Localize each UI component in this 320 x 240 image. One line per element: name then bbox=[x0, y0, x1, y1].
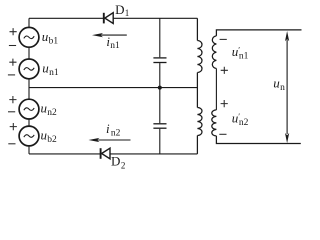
reference label D2 bbox=[111, 154, 125, 171]
value label u_n1 bbox=[42, 60, 59, 78]
value label u_b1 bbox=[42, 29, 59, 47]
polarity - of u_b1 bbox=[9, 45, 16, 47]
polarity + of u'_n2 bbox=[221, 100, 228, 107]
wire between secondary windings bbox=[215, 69, 217, 110]
wire between sources u_n2 and u_b2 bbox=[28, 119, 30, 126]
polarity - of u_n1 bbox=[8, 74, 15, 76]
svg-text:b1: b1 bbox=[49, 36, 59, 46]
value label u_n2 bbox=[41, 100, 58, 118]
current label i_n1 bbox=[106, 34, 120, 51]
diode D1 bbox=[104, 13, 113, 24]
polarity - of u_n2 bbox=[8, 111, 15, 113]
diode D2 bbox=[101, 148, 110, 159]
wire middle rail (center tap to transformer) bbox=[29, 87, 197, 89]
current arrow i_n1 bbox=[92, 33, 127, 37]
ac source u_n2 bbox=[19, 99, 39, 119]
svg-text:n1: n1 bbox=[110, 41, 120, 51]
polarity + of u_b1 bbox=[10, 28, 17, 35]
svg-text:n2: n2 bbox=[47, 108, 57, 118]
polarity + of u'_n1 bbox=[221, 67, 228, 74]
wire bottom rail (left of D2) bbox=[29, 153, 101, 155]
reference label D1 bbox=[115, 2, 129, 18]
current label i_n2 bbox=[106, 121, 121, 138]
current arrow i_n2 bbox=[89, 138, 131, 142]
value label u_b2 bbox=[41, 127, 58, 145]
ac source u_b2 bbox=[19, 126, 39, 146]
capacitor C2 bbox=[153, 124, 166, 128]
wire top rail (left of D1) bbox=[29, 17, 104, 19]
polarity + of u_b2 bbox=[10, 123, 17, 130]
svg-text:D: D bbox=[115, 2, 124, 17]
value label u'_n2 bbox=[232, 111, 249, 129]
junction dot (middle rail / filter column) bbox=[158, 86, 162, 90]
wire middle column junction to capacitor C2 bbox=[159, 88, 161, 124]
svg-text:D: D bbox=[111, 154, 120, 169]
svg-text:i: i bbox=[106, 121, 110, 136]
svg-text:b2: b2 bbox=[47, 135, 57, 145]
svg-text:n1: n1 bbox=[239, 52, 249, 62]
voltage arrow u_n (double-headed) bbox=[285, 31, 289, 143]
voltage label u_n bbox=[273, 75, 285, 93]
wire between sources u_n1 and u_n2 (center tap) bbox=[28, 79, 30, 99]
polarity + of u_n2 bbox=[9, 96, 16, 103]
transformer primary winding L1 (upper half) bbox=[197, 18, 202, 107]
polarity + of u_n1 bbox=[9, 59, 16, 66]
wire source u_b2 to bottom corner bbox=[28, 146, 30, 154]
svg-text:1: 1 bbox=[125, 8, 130, 18]
value label u'_n1 bbox=[232, 44, 249, 62]
transformer primary winding L2 (lower half) bbox=[197, 108, 202, 154]
wire top rail (right of D1) bbox=[113, 17, 197, 19]
svg-text:n2: n2 bbox=[239, 118, 249, 128]
transformer secondary winding u'_n1 bbox=[212, 30, 301, 69]
ac source u_n1 bbox=[19, 59, 39, 79]
svg-text:n1: n1 bbox=[49, 68, 59, 78]
polarity - of u_b2 bbox=[8, 143, 15, 145]
wire middle column C1 to junction bbox=[159, 63, 161, 88]
wire bottom rail (right of D2) bbox=[110, 153, 197, 155]
ac source u_b1 bbox=[19, 27, 39, 47]
wire middle column below C2 bbox=[159, 129, 161, 154]
wire middle column above capacitor C1 bbox=[159, 18, 161, 57]
wire between sources u_b1 and u_n1 bbox=[28, 47, 30, 59]
transformer secondary winding u'_n2 bbox=[212, 110, 301, 144]
capacitor C1 bbox=[153, 58, 166, 63]
wire left column, top corner to source u_b1 bbox=[28, 18, 30, 27]
svg-text:n: n bbox=[280, 83, 285, 93]
svg-text:n2: n2 bbox=[111, 128, 121, 138]
polarity - of u'_n2 bbox=[219, 133, 226, 135]
svg-text:2: 2 bbox=[121, 160, 126, 170]
polarity - of u'_n1 bbox=[220, 38, 227, 40]
